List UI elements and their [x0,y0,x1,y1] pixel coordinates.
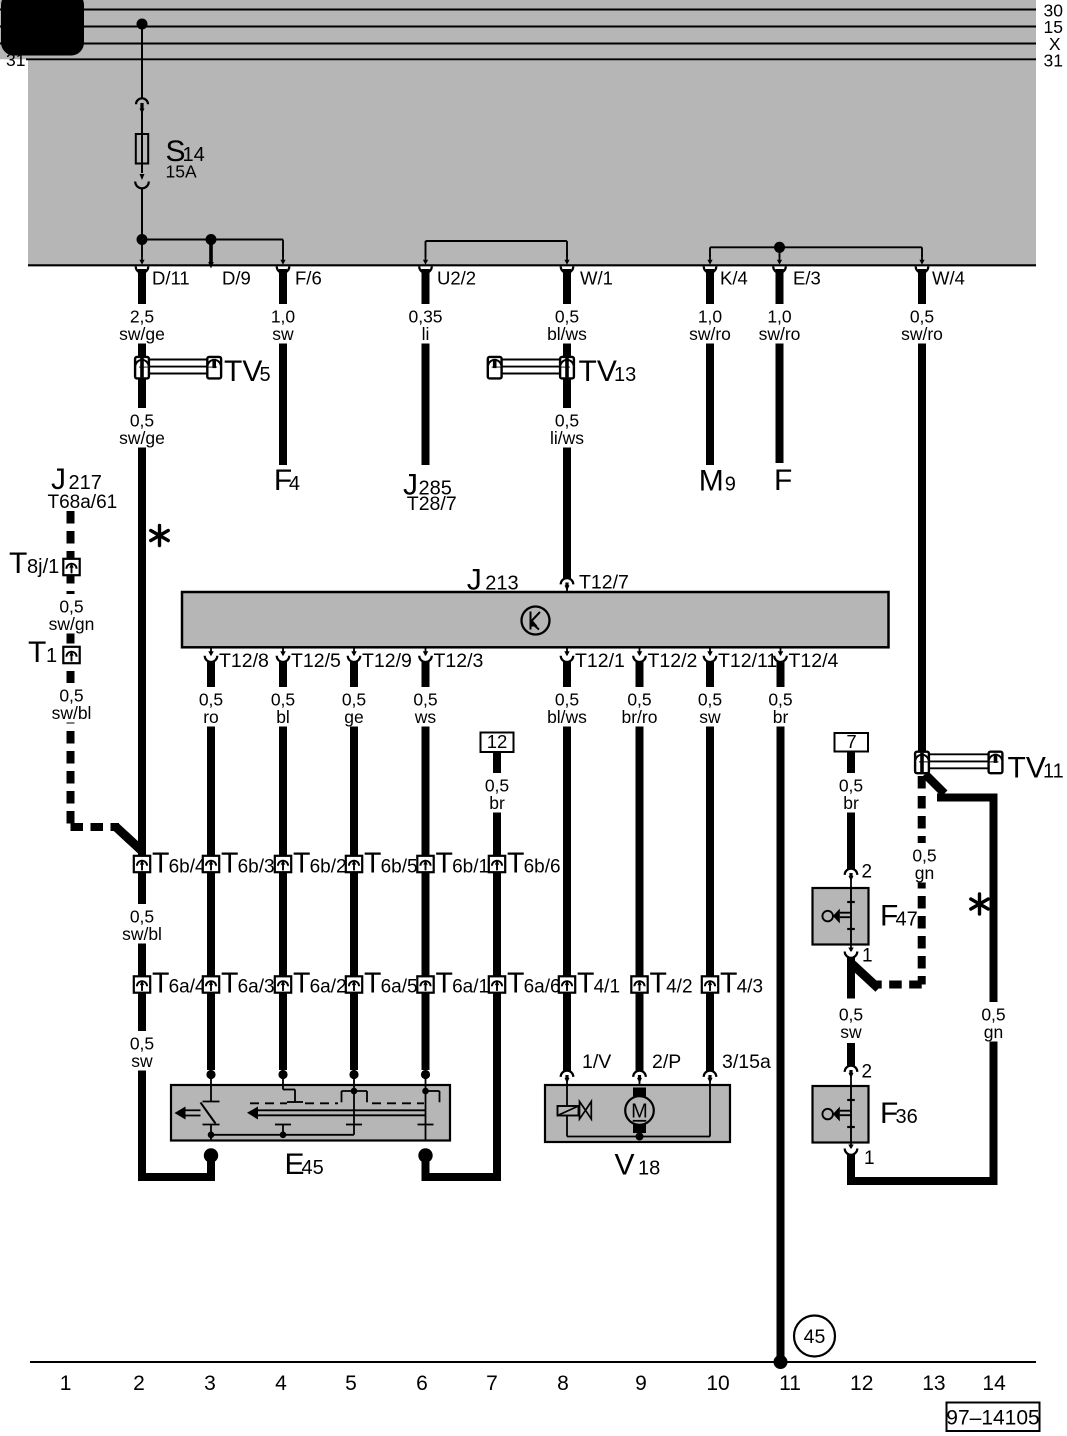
svg-text:br: br [773,707,789,727]
svg-text:T: T [221,968,238,1000]
svg-text:li: li [422,324,430,344]
wire track5 T12/9 down [350,660,358,1071]
valve/pump unit V18 box [545,1085,730,1142]
component J285 label [403,469,457,516]
svg-text:45: 45 [804,1326,826,1348]
band bottom edge [28,264,1036,266]
svg-text:gn: gn [915,863,934,883]
pin T12/1 [561,647,625,672]
label 0,5 br [761,687,801,727]
svg-text:T68a/61: T68a/61 [48,492,118,513]
svg-text:6b/3: 6b/3 [238,857,275,878]
svg-text:T12/8: T12/8 [219,650,269,672]
svg-text:6a/5: 6a/5 [381,977,418,998]
terminal E/3 [773,255,821,288]
svg-text:sw/ge: sw/ge [119,324,165,344]
V18 pin 1/V [561,1051,612,1085]
svg-text:6a/6: 6a/6 [524,977,561,998]
svg-text:213: 213 [485,573,518,595]
svg-text:T: T [152,968,169,1000]
svg-text:13: 13 [922,1372,945,1395]
svg-text:sw/ro: sw/ro [759,324,801,344]
svg-text:1/V: 1/V [582,1051,611,1073]
fuse S14 with clips and label [135,98,205,236]
wire track7 box12 down to elbow [493,751,501,1181]
svg-text:TV: TV [579,355,617,388]
label 0,5 sw/ro (W/4) [896,304,948,344]
svg-text:9: 9 [635,1372,647,1395]
svg-text:8: 8 [557,1372,569,1395]
component J217 label [48,463,118,513]
E45 internal switch mechanism [175,1085,440,1141]
svg-text:T: T [507,848,524,880]
wire diagonal joining track2 [116,827,142,851]
svg-text:6b/6: 6b/6 [524,857,561,878]
connector T6a/4 [134,968,206,1000]
label 0,5 ge [334,687,374,727]
svg-text:6a/4: 6a/4 [169,977,206,998]
dashed wire gn from TV11 to F47 junction [872,776,922,985]
connector T6a/3 [203,968,275,1000]
svg-text:li/ws: li/ws [550,428,584,448]
svg-text:sw: sw [131,1051,153,1071]
pressure switch F47 box [813,888,869,945]
connector T4/3 [702,968,763,1000]
wire elbow F36 to track14 [851,1177,994,1185]
svg-text:T: T [221,848,238,880]
wire track11 E/3 to F [776,269,784,463]
label 1,0 sw/ro (K/4) [684,304,736,344]
bottom rule [30,1361,1036,1363]
svg-text:4/1: 4/1 [594,977,620,998]
pin T12/4 [774,647,838,672]
F47 pin 2 [845,862,872,889]
label 0,5 sw/bl [46,683,98,723]
svg-text:T: T [364,968,381,1000]
svg-text:6b/4: 6b/4 [169,857,206,878]
wire track6 U2/2 to J285 [422,269,430,465]
asterisk (track2) [151,526,168,546]
svg-text:M: M [699,465,724,498]
connector T6b/4 [134,848,206,880]
label 0,5 bl/ws [542,687,592,727]
label 0,5 bl/ws [542,304,592,344]
connector T6a/1 [417,968,489,1000]
connector T6a/2 [275,968,347,1000]
label 0,5 li/ws [542,408,592,448]
svg-text:bl/ws: bl/ws [547,707,587,727]
svg-text:F: F [774,464,792,497]
svg-text:gn: gn [984,1022,1003,1042]
svg-text:E/3: E/3 [793,268,821,289]
svg-text:T12/5: T12/5 [291,650,341,672]
svg-text:sw: sw [699,707,721,727]
svg-text:1: 1 [46,645,57,667]
wire track8 W/1 to J213 T12/7 [563,269,571,579]
svg-text:31: 31 [1044,50,1063,70]
terminal U2/2 [419,255,476,288]
svg-text:2: 2 [862,1062,873,1083]
terminal K/4 [704,255,748,288]
svg-text:sw/gn: sw/gn [49,614,95,634]
svg-text:T: T [507,968,524,1000]
label 0,5 sw [690,687,730,727]
svg-text:T12/4: T12/4 [789,650,839,672]
label 0,35 li [401,304,451,344]
svg-text:J: J [467,564,482,597]
pin T12/11 [704,647,778,672]
svg-text:45: 45 [302,1157,324,1179]
connector T6b/3 [203,848,275,880]
F36 pin 1 [845,1141,875,1169]
svg-text:6a/3: 6a/3 [238,977,275,998]
connector T6b/1 [417,848,489,880]
wire track10 K/4 to M9 [706,269,714,465]
ground node on track 11 [774,1355,788,1369]
reference box 12 [481,731,514,752]
svg-text:T12/11: T12/11 [718,650,777,672]
bus line X [0,34,1061,54]
svg-text:T12/2: T12/2 [648,650,698,672]
component F4 label [274,464,300,497]
label 0,5 br (track12) [831,773,871,813]
reference box 7 [835,731,869,752]
svg-text:18: 18 [638,1158,660,1180]
bus line 15 [0,17,1063,37]
svg-text:sw/ge: sw/ge [119,428,165,448]
E45 entry node x=354 [349,1070,358,1085]
svg-text:br: br [843,793,859,813]
diagram number 97-14105 [946,1403,1039,1432]
svg-text:T: T [436,968,453,1000]
svg-text:T: T [436,848,453,880]
dashed wire J217 (sw/gn, sw/bl) [71,511,120,827]
label 0,5 bl [263,687,303,727]
svg-text:5: 5 [345,1372,357,1395]
wire elbow to E45 left pin [142,1173,211,1181]
connector T8j/1 [9,547,80,580]
connector TV5 [135,355,271,388]
svg-text:ws: ws [414,707,437,727]
svg-text:ge: ge [344,707,363,727]
svg-text:8j/1: 8j/1 [27,556,59,578]
connector T1 [28,636,80,669]
svg-text:TV: TV [1008,752,1046,785]
svg-text:br: br [489,793,505,813]
svg-text:9: 9 [725,474,736,496]
ground designation 45 [794,1316,835,1357]
terminal W/1 [561,255,613,288]
label 0,5 ro [191,687,231,727]
terminal D/11 [136,255,190,288]
wire F47 pin1 junction diagonal [851,957,879,999]
E45 left output node [204,1148,218,1181]
label 0,5 sw (track2) [122,1031,162,1071]
svg-text:W/1: W/1 [580,268,613,289]
label 1,0 sw [261,304,305,344]
label 0,5 ws [406,687,446,727]
svg-text:bl: bl [276,707,290,727]
track numbers [60,1372,1006,1395]
svg-text:13: 13 [614,364,636,386]
connector T6b/5 [346,848,418,880]
svg-text:4/2: 4/2 [666,977,692,998]
bus line 30 [0,0,1063,20]
svg-text:15A: 15A [166,162,197,182]
svg-text:K/4: K/4 [720,268,748,289]
V18 pin 2/P [633,1051,681,1085]
svg-text:sw: sw [840,1022,862,1042]
svg-text:6a/1: 6a/1 [452,977,489,998]
svg-text:6b/5: 6b/5 [381,857,418,878]
bus line 31 [6,50,1063,70]
E45 right output node [418,1148,432,1181]
label 0,5 sw/bl (track2) [116,904,168,944]
svg-text:7: 7 [846,731,856,752]
svg-text:36: 36 [896,1106,918,1128]
wire elbow E45 right pin to track7 [426,1173,498,1181]
asterisk (track14) [971,894,988,914]
svg-text:T: T [293,848,310,880]
svg-text:4: 4 [289,473,300,495]
label 0,5 br/ro [614,687,666,727]
bridge wire U2/2 to W/1 [426,241,568,257]
wire from bus 30 to fuse S14 [137,19,148,100]
connector T6b/2 [275,848,347,880]
F36 pin 2 [845,1062,872,1087]
svg-text:TV: TV [224,355,262,388]
pin T12/7 [561,572,629,594]
wire track10 T12/11 to V18 [706,660,714,1072]
wire F36 pin1 to elbow [847,1154,855,1185]
label 0,5 br (track7) [477,773,517,813]
wire junction to D/11 [141,240,143,257]
label 0,5 sw/gn [46,594,98,634]
pin T12/9 [348,647,412,672]
E45 entry node x=283 [278,1070,287,1085]
svg-text:M: M [631,1101,648,1123]
svg-text:sw: sw [272,324,294,344]
svg-text:97–14105: 97–14105 [946,1407,1039,1430]
svg-text:47: 47 [896,909,918,931]
svg-text:3/15a: 3/15a [722,1051,771,1073]
component F label (E/3) [774,464,792,497]
connector T4/2 [631,968,692,1000]
wire track4 T12/5 down [279,660,287,1071]
svg-text:14: 14 [982,1372,1006,1395]
V18 motor M symbol [625,1088,654,1137]
wire track11 T12/4 to ground point 45 [777,660,785,1363]
svg-text:T28/7: T28/7 [407,493,457,515]
svg-text:1: 1 [60,1372,72,1395]
svg-text:1: 1 [864,1148,875,1169]
junction node D/9 [206,234,217,269]
svg-text:T: T [28,636,46,669]
pressure switch F36 box [813,1086,869,1143]
svg-text:T: T [293,968,310,1000]
wire TV11 to track14 (0,5 gn) [925,774,994,1185]
E45 label [285,1148,324,1181]
svg-text:br/ro: br/ro [622,707,658,727]
label 0,5 gn (track14) [974,1002,1014,1042]
component M9 label [699,465,736,498]
label 0,5 gn (track13) [905,843,945,883]
wire F47/F36 link (0,5 sw) [847,1043,855,1069]
svg-text:6b/1: 6b/1 [452,857,489,878]
svg-text:sw/ro: sw/ro [901,324,943,344]
svg-text:6: 6 [416,1372,428,1395]
svg-text:11: 11 [779,1372,801,1395]
connector TV11 [915,752,1064,785]
svg-text:T: T [364,848,381,880]
pin T12/2 [633,647,697,672]
label 2,5 sw/ge [117,304,167,344]
svg-text:2: 2 [133,1372,145,1395]
svg-text:2: 2 [862,862,873,883]
svg-text:ro: ro [203,707,219,727]
wire track6 T12/3 down [422,660,430,1071]
wire track8 T12/1 to V18 [563,660,571,1072]
svg-text:12: 12 [850,1372,873,1395]
E45 entry node x=211 [206,1070,215,1085]
svg-text:10: 10 [706,1372,729,1395]
connector T6a/5 [346,968,418,1000]
svg-text:2/P: 2/P [652,1051,681,1073]
svg-text:4: 4 [275,1372,287,1395]
bridge wire D/11 to F/6 [142,240,283,257]
terminal D/9 (stub) [222,268,251,289]
label 1,0 sw/ro (E/3) [754,304,806,344]
terminal W/4 [916,255,965,288]
F47 label [880,900,918,933]
wire track2 D/11 down to E45 elbow [138,269,146,1181]
switch E45 box [171,1085,450,1141]
svg-text:V: V [615,1149,635,1182]
grey bus-bar band (top) [0,0,1036,265]
svg-text:T12/9: T12/9 [362,650,412,672]
svg-text:6a/2: 6a/2 [310,977,347,998]
svg-text:5: 5 [260,364,271,386]
wire track13 W/4 to TV11 [918,269,926,752]
svg-text:6b/2: 6b/2 [310,857,347,878]
bridge wire K/4 - E/3 - W/4 [710,242,922,257]
wire box7 to F47 pin2 [847,751,855,869]
wire track9 T12/2 to V18 [636,660,644,1072]
pin T12/3 [419,647,483,672]
svg-text:4/3: 4/3 [737,977,763,998]
svg-text:T: T [577,968,594,1000]
svg-text:T: T [650,968,667,1000]
connector TV13 [488,355,636,388]
F47 pin 1 [845,944,873,967]
svg-text:sw/bl: sw/bl [122,924,162,944]
control unit J213 (box with K relay symbol) [182,564,889,648]
junction node on D/11 feed [137,234,148,245]
svg-text:T: T [9,547,27,580]
svg-text:sw/ro: sw/ro [689,324,731,344]
svg-text:1: 1 [862,946,873,967]
svg-text:T12/1: T12/1 [575,650,625,672]
label 0,5 sw (track12) [831,1002,871,1042]
svg-text:sw/bl: sw/bl [52,703,92,723]
F36 label [880,1097,918,1130]
svg-text:3: 3 [204,1372,216,1395]
svg-text:T12/7: T12/7 [579,572,629,594]
battery / connector block (black) [1,0,84,56]
svg-text:W/4: W/4 [932,268,965,289]
connector T4/1 [559,968,620,1000]
svg-text:12: 12 [487,731,508,752]
svg-text:D/9: D/9 [222,268,251,289]
E45 entry node x=425.5 [421,1070,430,1085]
svg-text:bl/ws: bl/ws [547,324,587,344]
pin T12/8 [205,647,269,672]
V18 solenoid valve symbol and wiring [558,1085,711,1141]
svg-text:11: 11 [1043,761,1064,783]
terminal F/6 [277,255,322,288]
label 0,5 sw/ge [117,408,167,448]
svg-text:T: T [720,968,737,1000]
wire track3 T12/8 down [207,660,215,1071]
svg-text:7: 7 [486,1372,498,1395]
connector T6b/6 [489,848,561,880]
V18 label [615,1149,661,1182]
connector T6a/6 [489,968,561,1000]
V18 pin 3/15a [704,1051,771,1085]
wire track4 F/6 to F4 [279,269,287,465]
svg-text:F/6: F/6 [295,268,322,289]
svg-text:T: T [152,848,169,880]
svg-text:U2/2: U2/2 [437,268,476,289]
svg-text:T12/3: T12/3 [434,650,484,672]
svg-text:217: 217 [69,472,102,494]
svg-text:D/11: D/11 [152,268,190,289]
pin T12/5 [277,647,341,672]
